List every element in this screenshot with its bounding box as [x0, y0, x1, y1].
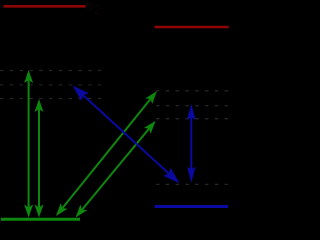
virtual level dashed line (right, lower-mid) [156, 118, 229, 120]
level label "5 2" (very dark) [86, 0, 101, 17]
virtual level dashed line (left, middle) [0, 84, 101, 86]
green diagonal arrow (long) [56, 91, 157, 216]
svg-text:5: 5 [86, 0, 93, 14]
ground level line 5S (bottom left, green) [1, 218, 80, 221]
blue vertical arrow [187, 104, 196, 183]
virtual level dashed line (right, top) [156, 90, 229, 92]
energy level line 6P (top right, dark red) [155, 26, 229, 29]
virtual level dashed line (right, upper-mid) [156, 105, 229, 107]
energy level line 5D (top left, dark red) [4, 5, 86, 8]
green two-photon arrow (tall vertical, 778 nm) [24, 70, 33, 218]
blue diagonal arrow [73, 86, 180, 184]
green diagonal arrow (short) [76, 121, 156, 218]
green two-photon arrow (short vertical, 778 nm) [35, 99, 44, 218]
virtual level dashed line (left, top) [0, 70, 101, 72]
virtual level dashed line (left, bottom) [0, 98, 101, 100]
svg-text:2: 2 [94, 2, 101, 17]
virtual level dashed line (right, bottom) [156, 183, 229, 185]
energy level line 5P (bottom right, blue) [155, 205, 229, 208]
